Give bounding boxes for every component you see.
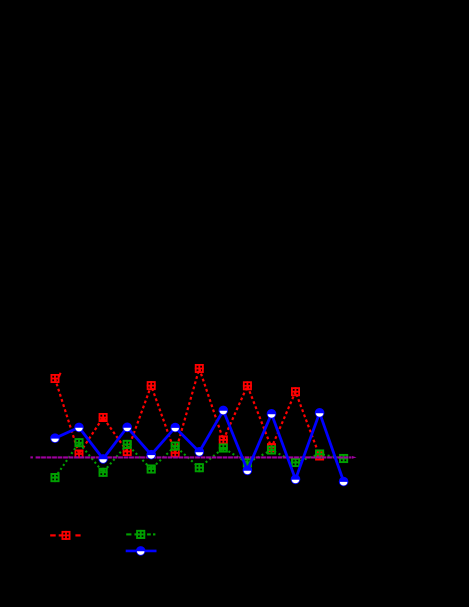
red series dashed line: [55, 369, 320, 457]
legend blue entry: solid sample line + marker: [126, 550, 157, 553]
legend green entry: dashed sample line + marker: [126, 533, 131, 535]
green series dotted line: [55, 443, 344, 478]
green markers: [51, 473, 60, 482]
red stray dash near first point: [59, 373, 61, 377]
legend red entry: dashed sample line + marker: [50, 534, 56, 536]
blue markers: [50, 433, 60, 443]
blue series solid line: [55, 410, 344, 481]
magenta zero-axis dashed line: [30, 456, 33, 458]
red markers: [51, 374, 60, 383]
magenta arrow tip: [352, 456, 357, 459]
